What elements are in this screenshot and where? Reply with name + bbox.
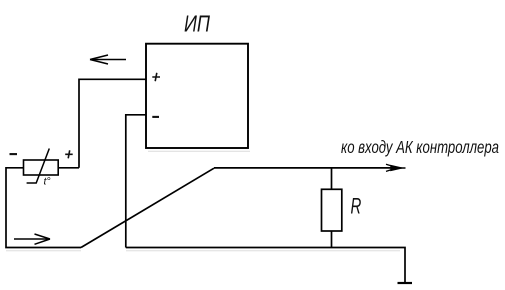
arrow current direction left [90, 55, 126, 64]
label + (thermistor plus) [65, 150, 73, 158]
label − (box minus terminal) [152, 116, 159, 118]
wire signal line to controller [214, 167, 396, 169]
wire resistor bottom [331, 231, 333, 247]
arrow current direction right (bottom) [14, 234, 50, 244]
thermistor RK1 body [24, 160, 59, 175]
label − (thermistor minus) [10, 153, 18, 155]
shadow under box [148, 150, 250, 152]
wire resistor top tap [331, 168, 333, 189]
label + (box plus terminal) [152, 73, 160, 81]
ground [398, 282, 413, 284]
wire thermistor plus to vertical [58, 167, 79, 169]
shadow under bottom rail [126, 250, 400, 252]
wire bottom rail [126, 248, 405, 284]
shadow under bottom-left wire [6, 250, 81, 252]
power supply box U1 (ИП) [146, 44, 248, 148]
wire thermistor minus loop left-down-bottom [6, 168, 81, 248]
resistor R body [322, 189, 342, 231]
svg-text:R: R [351, 194, 362, 219]
arrowhead to controller input [386, 164, 406, 171]
svg-text:ко входу АК контроллера: ко входу АК контроллера [341, 137, 499, 157]
svg-text:t°: t° [44, 176, 51, 188]
wire diagonal from bottom loop to signal line [81, 168, 214, 247]
wire box plus terminal [79, 79, 146, 168]
svg-text:ИП: ИП [184, 11, 210, 37]
thermistor diagonal stroke [27, 149, 50, 184]
wire box minus terminal [126, 115, 146, 248]
